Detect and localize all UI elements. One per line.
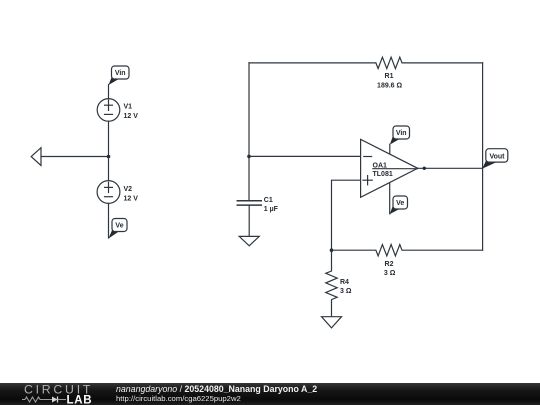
wire: plus input	[332, 180, 361, 250]
ground under R4	[322, 317, 342, 328]
svg-text:Vout: Vout	[489, 153, 505, 160]
svg-text:R2: R2	[385, 261, 394, 268]
svg-text:1 µF: 1 µF	[264, 206, 279, 213]
flag Vin (top left)	[109, 76, 120, 86]
wire: Vin flag to V1 top	[108, 85, 110, 99]
svg-text:189.6 Ω: 189.6 Ω	[377, 83, 402, 90]
svg-text:3 Ω: 3 Ω	[340, 288, 352, 295]
capacitor C1	[237, 200, 261, 202]
wire: bottom net with resistor R2	[332, 245, 483, 256]
svg-text:Vin: Vin	[396, 130, 407, 137]
op-amp supply pin bottom wire	[389, 183, 391, 214]
resistor R4 (vertical)	[326, 250, 337, 317]
footer bar	[0, 383, 540, 405]
ground under C1	[239, 236, 259, 245]
net flags	[109, 66, 508, 239]
flag Vout	[482, 158, 496, 169]
svg-text:V1: V1	[124, 104, 133, 111]
wire: minus input	[249, 155, 361, 157]
wire: arrow to junction	[41, 156, 109, 158]
wire: V1 bottom to junction	[108, 121, 110, 156]
wire: left vertical to C1	[248, 63, 250, 201]
flag Ve (op-amp V-)	[390, 204, 400, 214]
flag Ve (bottom left)	[109, 229, 120, 239]
wire: output	[418, 167, 483, 169]
node arrow (left terminal)	[31, 148, 41, 166]
svg-text:TL081: TL081	[373, 171, 393, 178]
wire: top net with resistor R1	[249, 57, 483, 68]
svg-text:Vin: Vin	[115, 70, 126, 77]
svg-text:R1: R1	[385, 73, 394, 80]
svg-text:12 V: 12 V	[124, 113, 139, 120]
wire: junction to V2 top	[108, 157, 110, 181]
svg-text:Ve: Ve	[115, 223, 123, 230]
svg-text:Ve: Ve	[396, 200, 404, 207]
svg-text:V2: V2	[124, 186, 133, 193]
op-amp OA1 triangle	[361, 139, 418, 197]
junction left	[107, 155, 111, 159]
svg-text:C1: C1	[264, 197, 273, 204]
svg-text:R4: R4	[340, 279, 349, 286]
junction at output pin	[423, 167, 426, 170]
op-amp supply pin top wire	[389, 144, 391, 154]
svg-text:3 Ω: 3 Ω	[384, 270, 396, 277]
voltage source V1	[97, 99, 120, 122]
wire: V2 bottom to Ve flag	[108, 203, 110, 238]
wire: C1 to ground	[248, 206, 250, 237]
wire: right vertical	[482, 63, 484, 250]
svg-text:LAB: LAB	[67, 395, 93, 405]
svg-text:12 V: 12 V	[124, 195, 139, 202]
CircuitLab logo	[0, 383, 100, 405]
svg-text:OA1: OA1	[373, 162, 388, 169]
junction at R4 tee	[330, 248, 334, 252]
flag Vin (op-amp V+)	[390, 135, 400, 145]
voltage source V2	[97, 181, 120, 204]
junction at minus-input tee	[247, 155, 251, 159]
